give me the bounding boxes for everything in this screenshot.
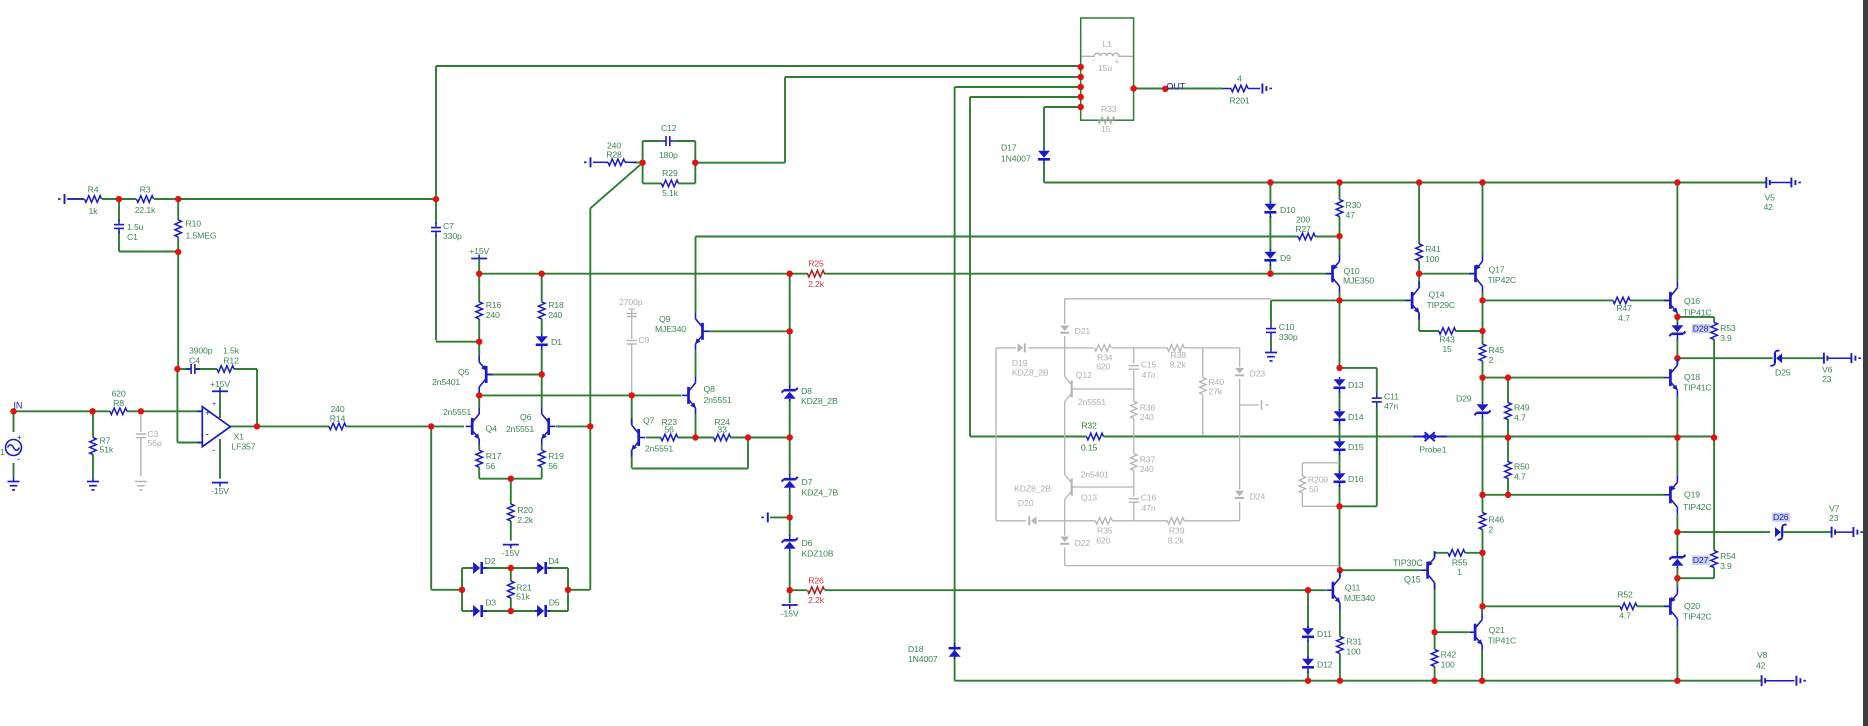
resistor R39 (ghost) bbox=[1167, 518, 1185, 546]
svg-text:C11: C11 bbox=[1384, 392, 1399, 402]
svg-text:2n5401: 2n5401 bbox=[1081, 470, 1109, 480]
wire Q16 base net b bbox=[1630, 299, 1669, 301]
svg-text:0.15: 0.15 bbox=[1081, 443, 1098, 453]
wire Q7 emitter loop bottom bbox=[632, 468, 748, 470]
svg-text:2: 2 bbox=[1489, 355, 1494, 365]
svg-text:R19: R19 bbox=[548, 451, 564, 461]
wire R17 bottom bbox=[478, 467, 480, 479]
svg-text:4.7: 4.7 bbox=[1514, 472, 1526, 482]
svg-text:R4: R4 bbox=[88, 185, 99, 195]
resistor R52 bbox=[1617, 590, 1637, 621]
svg-text:V6: V6 bbox=[1822, 365, 1833, 375]
transistor Q15 bbox=[1421, 551, 1435, 589]
wire Q20 base net bbox=[1482, 605, 1620, 607]
source V1 bbox=[0, 433, 22, 464]
resistor R21 bbox=[508, 581, 532, 602]
wire fb C4 net b bbox=[196, 368, 217, 370]
svg-text:Probe1: Probe1 bbox=[1419, 445, 1446, 455]
svg-text:3.9: 3.9 bbox=[1720, 333, 1732, 343]
svg-text:Q8: Q8 bbox=[704, 384, 716, 394]
label OUT node bbox=[1167, 82, 1186, 92]
wire R46 bottom bbox=[1482, 530, 1484, 553]
resistor R45 bbox=[1479, 344, 1504, 365]
port P V6 bbox=[1851, 353, 1861, 363]
resistor R40 (ghost) bbox=[1200, 348, 1225, 436]
wire V8 wire bbox=[1765, 680, 1794, 682]
diode D4 bbox=[535, 556, 559, 574]
svg-text:D17: D17 bbox=[1001, 143, 1017, 153]
svg-text:Q21: Q21 bbox=[1489, 625, 1505, 635]
diode D26 bbox=[1772, 512, 1790, 540]
diode D29 bbox=[1456, 394, 1491, 419]
wire net fb1 top bbox=[436, 65, 1081, 67]
resistor R55 bbox=[1448, 550, 1468, 578]
transistor Q20 bbox=[1664, 587, 1712, 625]
svg-text:R32: R32 bbox=[1081, 421, 1097, 431]
junction C1-R10 bbox=[175, 249, 181, 255]
svg-text:TIP41C: TIP41C bbox=[1488, 636, 1517, 646]
svg-text:R27: R27 bbox=[1295, 224, 1311, 234]
wire Q20 coll drop bbox=[1676, 625, 1678, 680]
svg-text:15: 15 bbox=[1442, 344, 1452, 354]
junction R4-R3 bbox=[116, 196, 122, 202]
svg-text:D4: D4 bbox=[548, 556, 559, 566]
svg-text:100: 100 bbox=[1346, 647, 1360, 657]
wire R29 leads bbox=[643, 182, 662, 184]
junction L1 pin1 bbox=[1078, 64, 1084, 70]
svg-text:KDZ8_2B: KDZ8_2B bbox=[1014, 484, 1051, 494]
svg-text:Q15: Q15 bbox=[1404, 575, 1421, 585]
wire V1 drop bbox=[13, 411, 15, 432]
svg-text:Q18: Q18 bbox=[1684, 372, 1700, 382]
svg-text:D20: D20 bbox=[1018, 498, 1034, 508]
junction C12 right bbox=[692, 160, 698, 166]
svg-text:MJE340: MJE340 bbox=[1344, 593, 1375, 603]
svg-text:R17: R17 bbox=[486, 451, 502, 461]
svg-text:Q20: Q20 bbox=[1684, 601, 1700, 611]
diode D14 bbox=[1334, 409, 1364, 425]
wire Q6 emit drop bbox=[541, 445, 543, 450]
wire Q8 emitter drop bbox=[695, 414, 697, 437]
wire Q4 base drop link bbox=[430, 426, 432, 589]
wire C12 right to corner bbox=[695, 162, 785, 164]
junction R49 top bbox=[1505, 374, 1511, 380]
svg-text:LF357: LF357 bbox=[232, 442, 256, 452]
svg-text:D8: D8 bbox=[801, 386, 812, 396]
diode D3 bbox=[471, 598, 496, 618]
svg-text:1: 1 bbox=[1457, 567, 1462, 577]
wire R201 lead bbox=[1222, 88, 1231, 90]
wire input RC net bbox=[68, 198, 84, 200]
wire C12 riser bbox=[784, 77, 786, 163]
label V5 bbox=[1764, 193, 1776, 213]
junction D7 D6 port bbox=[787, 514, 793, 520]
label V8 bbox=[1756, 650, 1768, 671]
wire D29 down bbox=[1482, 417, 1484, 495]
svg-text:1.5u: 1.5u bbox=[127, 222, 144, 232]
wire Q14 coll bbox=[1418, 274, 1420, 288]
capacitor C11 bbox=[1372, 392, 1399, 412]
wire Q9 collector riser bbox=[695, 237, 697, 313]
svg-text:R41: R41 bbox=[1425, 244, 1441, 254]
wire x590 riser bbox=[589, 208, 591, 426]
junction D1 bottom bbox=[539, 371, 545, 377]
wire R21 bottom bbox=[510, 598, 512, 611]
diode D6 bbox=[782, 535, 834, 559]
wire Q9 Q8 link bbox=[695, 350, 697, 376]
svg-text:Q4: Q4 bbox=[486, 424, 498, 434]
wire net fb2 top bbox=[785, 76, 1081, 78]
wire D1 bottom bbox=[541, 349, 543, 375]
ghost box inner bbox=[996, 348, 1240, 521]
svg-text:R14: R14 bbox=[330, 413, 346, 423]
resistor R20 bbox=[508, 504, 534, 525]
svg-text:2n5551: 2n5551 bbox=[506, 424, 534, 434]
resistor R3 bbox=[135, 185, 156, 216]
wire opamp fb minus bbox=[177, 442, 202, 444]
junction R30 R27 bbox=[1336, 233, 1342, 239]
power +15V +15V rail sym bbox=[469, 246, 489, 259]
wire D17 lower bbox=[1043, 164, 1045, 183]
svg-text:D15: D15 bbox=[1348, 442, 1364, 452]
resistor R26 bbox=[808, 576, 825, 606]
svg-text:D10: D10 bbox=[1280, 205, 1296, 215]
resistor R37 (ghost) bbox=[1131, 454, 1156, 475]
wire R49 span bbox=[1507, 378, 1509, 403]
port ghost mid bbox=[1240, 400, 1269, 410]
svg-text:C12: C12 bbox=[661, 123, 677, 133]
diode D16 bbox=[1334, 471, 1364, 487]
svg-text:1: 1 bbox=[0, 448, 5, 457]
wire D18 to Vminus bbox=[954, 658, 956, 681]
wire R55 net b bbox=[1465, 552, 1482, 554]
svg-text:Q11: Q11 bbox=[1345, 583, 1361, 593]
svg-text:R26: R26 bbox=[808, 576, 824, 586]
ground R7 ground bbox=[87, 477, 99, 490]
wire R43 net bbox=[1419, 330, 1439, 332]
resistor R23 bbox=[661, 417, 678, 441]
ground C3 (ghost) bbox=[135, 482, 147, 490]
wire C12 box left bbox=[642, 141, 644, 183]
wire opamp out net bbox=[231, 425, 330, 427]
wire input RC net c bbox=[154, 198, 436, 200]
wire Q14 emit bbox=[1418, 313, 1420, 331]
resistor R41 bbox=[1416, 244, 1441, 264]
wire V1 to gnd bbox=[13, 463, 15, 477]
wire D15 D16 bbox=[1339, 453, 1341, 473]
wire Q17 coll drop bbox=[1482, 293, 1484, 301]
wire Q9 base wire bbox=[709, 330, 790, 332]
transistor Q10 bbox=[1326, 255, 1374, 293]
wire C7 net v3 bbox=[435, 235, 437, 341]
wire Q21 base net bbox=[1435, 631, 1469, 633]
wire R27 right bbox=[1315, 236, 1340, 238]
wire C11 top link bbox=[1340, 367, 1377, 369]
svg-text:R10: R10 bbox=[186, 219, 202, 229]
junction rail D10 bbox=[1267, 179, 1273, 185]
wire R30 drop bbox=[1339, 183, 1341, 200]
svg-text:C9: C9 bbox=[639, 335, 650, 345]
svg-text:R46: R46 bbox=[1489, 515, 1505, 525]
wire R23 R24 net b bbox=[678, 437, 714, 439]
wire V6 net b bbox=[1781, 357, 1824, 359]
wire net fb4 top bbox=[970, 96, 1081, 98]
svg-text:2.2k: 2.2k bbox=[517, 515, 534, 525]
wire probe riser bbox=[969, 97, 971, 437]
svg-text:D21: D21 bbox=[1075, 326, 1091, 336]
wire probe net b bbox=[1104, 436, 1422, 438]
transistor Q17 bbox=[1469, 255, 1516, 293]
svg-text:27k: 27k bbox=[1208, 387, 1222, 397]
diode D20 (ghost) bbox=[1014, 484, 1051, 526]
wire R43 net b bbox=[1455, 330, 1482, 332]
junction D6 bottom bbox=[787, 587, 793, 593]
wire R18 to D1 bbox=[541, 319, 543, 335]
transistor Q18 bbox=[1664, 359, 1712, 397]
capacitor C3 (ghost) bbox=[136, 415, 162, 476]
wire C7 net v2 bbox=[435, 199, 437, 224]
svg-text:33: 33 bbox=[717, 425, 727, 435]
wire +15V rail bbox=[479, 273, 808, 275]
wire Q10 coll drop bbox=[1339, 293, 1341, 301]
capacitor C1 bbox=[114, 220, 144, 243]
svg-text:C7: C7 bbox=[443, 221, 454, 231]
wire +15V rail R25 right bbox=[824, 273, 1331, 275]
wire D13 D14 bbox=[1339, 391, 1341, 411]
capacitor C4 bbox=[186, 364, 200, 374]
wire R23 R24 net c bbox=[731, 437, 790, 439]
svg-text:4.7: 4.7 bbox=[1619, 611, 1631, 621]
resistor R17 bbox=[476, 450, 502, 471]
wire V- rail bottom bbox=[955, 680, 1762, 682]
junction rail Q17 bbox=[1479, 179, 1485, 185]
wire probe net bbox=[970, 436, 1087, 438]
wire R28 lead b bbox=[625, 161, 636, 163]
transistor Q13 (ghost) bbox=[1065, 470, 1109, 503]
wire R54 bottom bbox=[1713, 568, 1715, 579]
svg-text:620: 620 bbox=[1096, 362, 1110, 372]
wire D27 span bbox=[1676, 532, 1678, 553]
svg-text:R31: R31 bbox=[1346, 637, 1362, 647]
wire Q21 coll bbox=[1481, 606, 1483, 613]
svg-text:47: 47 bbox=[1346, 210, 1356, 220]
wire R54 span bbox=[1713, 438, 1715, 551]
svg-text:+: + bbox=[205, 408, 210, 417]
port P3 out bbox=[1262, 84, 1272, 94]
wire bridge bottom edge bbox=[462, 610, 472, 612]
wire R201 lead b bbox=[1248, 88, 1260, 90]
junction rail R41 bbox=[1416, 179, 1422, 185]
svg-text:D29: D29 bbox=[1456, 394, 1472, 404]
junction rail D8 bbox=[787, 271, 793, 277]
wire R41 bottom bbox=[1418, 261, 1420, 274]
resistor R36 (ghost) bbox=[1131, 402, 1156, 423]
wire R53 to probe net bbox=[1713, 340, 1715, 438]
svg-text:Q13: Q13 bbox=[1081, 493, 1097, 503]
wire Q18 emit drop bbox=[1676, 397, 1678, 438]
svg-text:23: 23 bbox=[1829, 513, 1839, 523]
svg-text:240: 240 bbox=[1140, 464, 1154, 474]
resistor R47 bbox=[1613, 297, 1632, 323]
wire V7 wire bbox=[1835, 531, 1853, 533]
svg-text:D25: D25 bbox=[1775, 368, 1791, 378]
wire D10 D9 link bbox=[1269, 216, 1271, 251]
battery V7 bbox=[1832, 527, 1836, 538]
svg-text:R29: R29 bbox=[662, 168, 678, 178]
svg-text:4.7: 4.7 bbox=[1618, 313, 1630, 323]
wire Q17 base net bbox=[1419, 273, 1474, 275]
diode D10 bbox=[1264, 202, 1295, 218]
svg-text:KDZ8_2B: KDZ8_2B bbox=[801, 396, 838, 406]
diode D11 bbox=[1302, 626, 1332, 642]
resistor R35 (ghost) bbox=[1095, 518, 1113, 546]
wire Q18 base net bbox=[1483, 377, 1665, 379]
junction L1 pin2 bbox=[1078, 74, 1084, 80]
svg-text:D16: D16 bbox=[1348, 474, 1364, 484]
svg-text:D3: D3 bbox=[485, 598, 496, 608]
resistor R7 bbox=[90, 436, 114, 455]
svg-text:2n5551: 2n5551 bbox=[443, 407, 471, 417]
wire bridge right link bbox=[568, 589, 590, 591]
wire Q19 base net bbox=[1482, 494, 1664, 496]
wire D27 R54 bottom link bbox=[1677, 577, 1714, 579]
svg-text:330p: 330p bbox=[443, 231, 462, 241]
svg-text:2n5551: 2n5551 bbox=[704, 395, 732, 405]
svg-text:R3: R3 bbox=[140, 185, 151, 195]
wire D11 span bbox=[1307, 590, 1309, 628]
wire C12 box top b bbox=[675, 140, 695, 142]
ghost box outer bbox=[1065, 299, 1338, 566]
wire Q15 emit riser bbox=[1434, 551, 1436, 553]
wire C1 bottom bbox=[118, 231, 120, 252]
wire bridge left edge bbox=[461, 568, 463, 611]
op-amp X1 bbox=[197, 401, 256, 455]
resistor R200 (ghost) bbox=[1299, 463, 1339, 506]
wire R21 span bbox=[510, 568, 512, 581]
junction R17 R19 mid bbox=[508, 476, 514, 482]
wire D7 chain bbox=[789, 438, 791, 476]
wire R31 bottom bbox=[1339, 654, 1341, 681]
resistor R50 bbox=[1505, 462, 1530, 482]
junction R3-C7net bbox=[433, 196, 439, 202]
svg-text:D23: D23 bbox=[1250, 369, 1266, 379]
junction rail R30 bbox=[1336, 179, 1342, 185]
svg-text:+: + bbox=[1115, 57, 1120, 66]
junction Q19 coll bbox=[1674, 529, 1680, 535]
wire D8 chain c bbox=[789, 399, 791, 438]
svg-text:3900p: 3900p bbox=[189, 346, 213, 356]
svg-text:Q14: Q14 bbox=[1429, 290, 1445, 300]
svg-text:D28: D28 bbox=[1693, 324, 1709, 334]
wire Q5 coll drop bbox=[478, 394, 480, 396]
wire net fb3 top bbox=[955, 86, 1081, 88]
wire C10 bottom bbox=[1270, 338, 1272, 349]
wire V+ rail 42V bbox=[1044, 182, 1766, 184]
svg-text:15: 15 bbox=[1101, 124, 1111, 134]
wire R20 bottom bbox=[510, 521, 512, 541]
svg-text:330p: 330p bbox=[1279, 332, 1298, 342]
svg-text:-15V: -15V bbox=[781, 609, 799, 619]
svg-text:23: 23 bbox=[1822, 374, 1832, 384]
wire Q11 emit to R31 bbox=[1339, 609, 1341, 637]
resistor R24 bbox=[714, 417, 731, 441]
junction L1 pin4 bbox=[1078, 94, 1084, 100]
wire C11 side bbox=[1376, 368, 1378, 393]
svg-text:Q7: Q7 bbox=[643, 416, 655, 426]
wire R7 drop bbox=[92, 411, 94, 437]
wire R16 span bbox=[478, 274, 480, 302]
resistor R29 bbox=[661, 168, 678, 198]
wire D6 chain bbox=[789, 517, 791, 536]
label Q15 name bbox=[1404, 575, 1421, 585]
resistor R10 bbox=[175, 219, 217, 241]
svg-text:180p: 180p bbox=[659, 150, 678, 160]
wire Q11 base net bbox=[790, 589, 807, 591]
resistor R31 bbox=[1337, 637, 1363, 657]
transistor Q19 bbox=[1664, 476, 1712, 514]
svg-text:-15V: -15V bbox=[502, 548, 520, 558]
svg-text:Q16: Q16 bbox=[1684, 296, 1700, 306]
resistor R38 (ghost) bbox=[1167, 345, 1186, 370]
port P V5 bbox=[1791, 178, 1801, 188]
wire Q4 coll riser bbox=[478, 395, 480, 407]
diode D21 (ghost) bbox=[1060, 326, 1090, 337]
wire D8 chain a bbox=[789, 274, 791, 331]
wire x590 riser b bbox=[589, 426, 591, 589]
junction D28 bottom bbox=[1674, 355, 1680, 361]
wire opamp pwr top bbox=[219, 391, 221, 418]
svg-text:4: 4 bbox=[1237, 74, 1242, 84]
wire fb minus drop bbox=[176, 369, 178, 443]
diode D1 bbox=[536, 334, 562, 350]
battery V8 bbox=[1762, 675, 1766, 686]
svg-text:47n: 47n bbox=[1142, 503, 1156, 513]
svg-text:D14: D14 bbox=[1348, 412, 1364, 422]
svg-text:D2: D2 bbox=[485, 556, 496, 566]
port P V8 bbox=[1796, 676, 1806, 686]
wire R50 bottom bbox=[1507, 478, 1509, 495]
label V7 bbox=[1829, 504, 1840, 524]
wire R50 span bbox=[1507, 438, 1509, 462]
svg-text:V7: V7 bbox=[1829, 504, 1840, 514]
junction R3-R10 bbox=[175, 196, 181, 202]
resistor R8 bbox=[110, 389, 127, 415]
junction rail R18 bbox=[539, 271, 545, 277]
label TIP30C bbox=[1393, 558, 1423, 568]
junction rail R31 bbox=[1337, 678, 1343, 684]
resistor R46 bbox=[1479, 513, 1504, 535]
wire V6 wire bbox=[1827, 357, 1851, 359]
svg-text:200: 200 bbox=[1296, 215, 1310, 225]
wire D10 chain bbox=[1269, 183, 1271, 204]
wire fb out riser bbox=[256, 369, 258, 426]
svg-text:R30: R30 bbox=[1346, 200, 1362, 210]
resistor R14 bbox=[329, 404, 346, 430]
wire Q11 coll bbox=[1339, 570, 1341, 577]
svg-text:22.1k: 22.1k bbox=[135, 205, 156, 215]
svg-text:Q19: Q19 bbox=[1684, 490, 1700, 500]
svg-text:42: 42 bbox=[1764, 202, 1774, 212]
wire P1 lead bbox=[67, 198, 84, 200]
transistor Q9 bbox=[655, 312, 709, 350]
junction bridge top mid bbox=[508, 565, 514, 571]
svg-text:D13: D13 bbox=[1348, 380, 1364, 390]
wire D11 D12 link bbox=[1307, 640, 1309, 659]
wire Q4 emit drop bbox=[478, 445, 480, 450]
svg-text:R42: R42 bbox=[1441, 650, 1457, 660]
svg-text:R45: R45 bbox=[1489, 345, 1505, 355]
svg-text:2.2k: 2.2k bbox=[808, 279, 825, 289]
